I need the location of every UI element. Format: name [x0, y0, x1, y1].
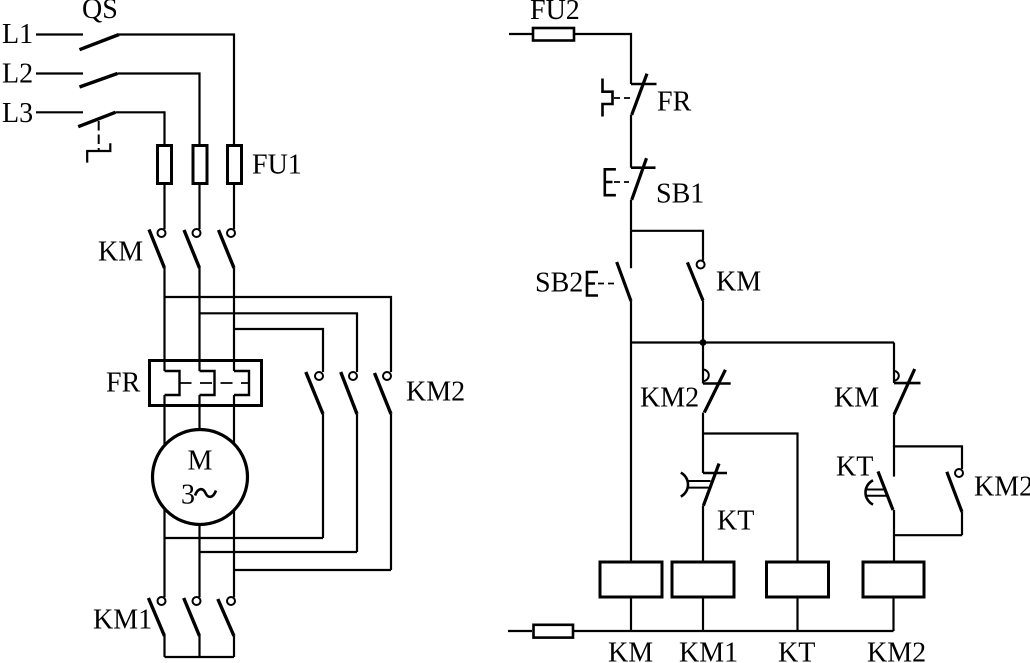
wire L2 to FU1 — [117, 74, 199, 145]
wire FU1 to KM pole 1 — [163, 185, 165, 229]
pushbutton SB2 actuator — [587, 272, 598, 296]
wire bus corner down to KM NC contact — [893, 343, 895, 384]
contactor KM auxiliary NO contact — [687, 261, 704, 301]
contactor KM1 contact 2 — [184, 597, 201, 636]
svg-text:FR: FR — [106, 368, 141, 399]
svg-text:KM: KM — [834, 383, 879, 414]
wire KM2 contact 2 to motor line 2 — [356, 414, 358, 552]
contactor KM2 main contact 1 — [306, 372, 323, 414]
wire KM1 contact 1 to star bus — [163, 636, 165, 657]
svg-text:KM2: KM2 — [640, 383, 699, 414]
wire L3 to FU1 — [115, 112, 164, 144]
control bus after start circuit — [631, 341, 894, 343]
wire FU1 to KM pole 3 — [233, 185, 235, 229]
wire phase3 KM to FR — [233, 268, 235, 371]
wire junction to KM2 NC contact — [702, 343, 704, 384]
contactor KM main contact 1 — [149, 229, 166, 268]
svg-text:KT: KT — [778, 638, 815, 663]
bottom control bus — [574, 630, 894, 632]
FR linkage dashes — [614, 97, 631, 99]
wire KM NC to KT NO contact — [893, 415, 895, 477]
fuse FU1 cartridge 2 — [193, 146, 207, 184]
thermal relay FR NC contact — [631, 74, 657, 115]
wire branch phase2 to KM2 contact 2 — [200, 313, 358, 372]
svg-text:KT: KT — [836, 452, 873, 483]
coil KM — [600, 562, 662, 597]
thermal relay FR heater element 3 — [234, 371, 249, 395]
svg-text:KM2: KM2 — [867, 638, 926, 663]
contactor KM main contact 3 — [219, 229, 236, 268]
time relay KT delayed-closing NO contact — [865, 471, 893, 510]
wire branch to KM aux contact — [631, 231, 703, 261]
wire phase1 KM to FR — [163, 268, 165, 371]
wire phase2 KM to FR — [198, 268, 200, 371]
thermal relay FR box — [150, 361, 262, 406]
switch QS pole 1 blade — [80, 35, 120, 50]
wire junction down to KM coil — [630, 343, 632, 563]
svg-text:KM: KM — [608, 638, 653, 663]
wire KM1 coil to bottom bus — [702, 597, 704, 631]
wire KM coil to bottom bus — [630, 597, 632, 631]
wire KM2 contact 1 to motor line 1 — [322, 414, 324, 538]
wire branch to KM2 aux contact — [894, 446, 962, 469]
wire KT contact to KM1 coil — [702, 506, 704, 562]
svg-text:KM2: KM2 — [406, 377, 465, 408]
svg-text:QS: QS — [82, 0, 118, 25]
wire SB2 to junction — [630, 301, 632, 343]
contactor KM1 contact 1 — [148, 597, 165, 636]
svg-text:L1: L1 — [2, 19, 33, 50]
svg-text:L3: L3 — [2, 98, 33, 129]
contactor KM NC contact — [894, 369, 921, 415]
wire branch to KT coil — [703, 434, 798, 563]
fuse FU1 cartridge 1 — [158, 146, 172, 184]
svg-text:SB2: SB2 — [535, 268, 583, 299]
fuse FU2 — [533, 28, 574, 41]
time relay KT delayed-opening NC contact — [681, 464, 727, 506]
contactor KM2 NC contact — [703, 370, 731, 413]
svg-text:3: 3 — [181, 480, 195, 511]
wire motor terminal 3 down — [233, 509, 235, 598]
fuse FU1 cartridge 3 — [228, 146, 242, 184]
contactor KM2 main contact 2 — [341, 372, 357, 414]
wire FR to motor phase3 — [233, 395, 235, 445]
wire motor terminal 2 to KM2 contact 2 — [200, 551, 358, 553]
switch QS linkage (dashed) — [87, 121, 110, 163]
thermal relay FR heater element 1 — [165, 371, 180, 395]
wire KT NO to KM2 coil — [893, 510, 895, 562]
svg-text:FU1: FU1 — [252, 150, 302, 181]
switch QS pole 3 blade — [78, 112, 115, 126]
wire FU1 to KM pole 2 — [198, 185, 200, 229]
SB2 linkage dashes — [598, 283, 617, 285]
wire control supply stub — [509, 33, 532, 35]
fuse (bottom) — [534, 625, 574, 638]
svg-text:KT: KT — [717, 506, 754, 537]
wire KM2 coil to bottom bus — [892, 597, 894, 631]
junction node — [700, 339, 707, 346]
contactor KM2 main contact 3 — [375, 372, 392, 414]
wire KM1 contact 3 to star bus — [233, 636, 235, 657]
svg-text:L2: L2 — [2, 59, 33, 90]
wire KM2 aux down — [961, 512, 963, 535]
svg-text:M: M — [188, 446, 213, 477]
thermal relay FR heater element 2 — [200, 371, 215, 395]
coil KM2 — [863, 562, 924, 597]
pushbutton SB1 actuator — [605, 169, 616, 195]
node L1 — [2, 19, 83, 50]
svg-text:FU2: FU2 — [530, 0, 580, 26]
wire KM2 NC to KT contact — [702, 413, 704, 474]
wire motor terminal 3 to KM2 contact 3 — [234, 569, 391, 571]
wire motor terminal 1 down — [163, 509, 165, 598]
wire SB1 to SB2 branch — [630, 200, 632, 231]
wire FR to motor phase1 — [163, 395, 165, 445]
thermal relay FR release element — [603, 79, 613, 117]
svg-text:KM1: KM1 — [93, 605, 152, 636]
coil KT — [767, 562, 829, 597]
wire bottom supply stub — [508, 630, 532, 632]
svg-text:KM: KM — [98, 237, 143, 268]
wire motor terminal 1 to KM2 contact 1 — [165, 537, 324, 539]
SB1 linkage dashes — [614, 181, 629, 183]
pushbutton SB1 NC contact — [631, 158, 656, 200]
wire KM1 contact 2 to star bus — [198, 636, 200, 657]
wire rejoin KT/KM2 parallel — [894, 534, 962, 536]
wire KT coil to bottom bus — [796, 597, 798, 631]
svg-text:KM: KM — [716, 267, 761, 298]
svg-text:SB1: SB1 — [656, 179, 704, 210]
pushbutton SB2 NO contact — [617, 231, 631, 301]
coil KM1 — [672, 562, 734, 597]
node L3 — [2, 98, 83, 129]
wire branch phase3 to KM2 contact 1 — [234, 329, 323, 372]
contactor KM1 contact 3 — [218, 597, 235, 636]
svg-text:KM1: KM1 — [679, 638, 738, 663]
wire FR to SB1 — [630, 115, 632, 168]
thermal relay FR linkage (dashed) — [180, 382, 250, 384]
svg-text:FR: FR — [657, 87, 692, 118]
contactor KM2 auxiliary NO contact — [947, 469, 963, 512]
star point bus — [165, 656, 235, 658]
wire branch phase1 to KM2 contact 3 — [165, 297, 392, 372]
contactor KM main contact 2 — [184, 229, 201, 268]
wire motor terminal 2 down — [198, 525, 200, 598]
svg-text:KM2: KM2 — [974, 472, 1030, 503]
node L2 — [2, 59, 83, 90]
wire L1 to FU1 — [119, 35, 234, 145]
wire FR to motor phase2 — [198, 395, 200, 430]
switch QS pole 2 blade — [80, 74, 118, 88]
motor M 3~ — [153, 430, 248, 525]
wire KM2 contact 3 to motor line 3 — [390, 414, 392, 570]
wire FU2 to FR contact — [575, 34, 631, 84]
wire KM aux to junction — [702, 301, 704, 343]
